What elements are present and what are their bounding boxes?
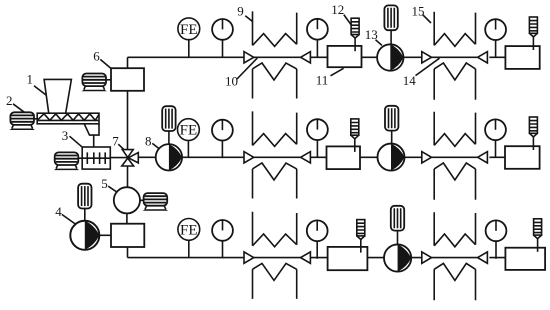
pipe box6 down to valve7: [127, 91, 129, 150]
funnel neck to mill: [93, 135, 95, 147]
mid box row2: [327, 146, 361, 169]
pipe feeder box down to row3: [127, 247, 129, 258]
hopper 1: [44, 79, 71, 113]
pump 4: [70, 221, 99, 250]
pressure gauge row2 left: [212, 120, 233, 158]
pipe pump4 to feeder box: [99, 234, 111, 236]
svg-text:14: 14: [403, 73, 417, 88]
leader line 3: [70, 136, 82, 147]
pressure gauge row3 left: [212, 220, 233, 258]
conveyor shaft line: [37, 119, 99, 121]
valve 10 row1 entry: [244, 52, 254, 63]
svg-text:11: 11: [316, 73, 329, 88]
screw conveyor housing: [37, 113, 99, 124]
leader line 11: [331, 68, 344, 76]
shaft M3 to mill: [78, 157, 82, 159]
temperature sensor 12: [351, 18, 359, 51]
stem motor to pump row2: [391, 131, 393, 144]
row3 HX2 exit triangle: [478, 252, 488, 263]
motor above pump 13: [384, 5, 397, 30]
row2 pipe segments: [182, 156, 505, 158]
screw flight zigzag: [37, 114, 99, 121]
stem motor to pump row3: [397, 231, 399, 245]
heat exchanger row3 HX2: [434, 212, 475, 300]
end box row2: [505, 146, 540, 169]
leader line 4: [62, 214, 76, 224]
svg-text:3: 3: [62, 128, 68, 143]
box 6: [111, 68, 144, 91]
discharge funnel: [84, 124, 99, 135]
leader line 6: [100, 59, 111, 68]
stem motor to pump4: [84, 209, 86, 221]
temperature sensor row3 mid: [357, 220, 365, 253]
leader line 9: [245, 16, 252, 22]
shaft M2 to conveyor: [34, 118, 38, 120]
row1 pipe segments: [128, 56, 506, 58]
pipe valve7 to pump8: [138, 156, 156, 158]
flow meter FE row2: [178, 119, 200, 158]
svg-text:6: 6: [93, 49, 100, 64]
svg-text:10: 10: [225, 73, 238, 88]
temperature sensor row3 right: [534, 219, 542, 252]
motor M2: [10, 112, 35, 130]
row2 entry to HX2: [422, 152, 432, 163]
heat exchanger row2: [253, 111, 297, 198]
leader line 13: [376, 40, 382, 46]
pipe tank5 down to feeder box: [126, 213, 128, 223]
stem motor to pump13: [390, 30, 392, 44]
row2 HX2 exit triangle: [478, 152, 488, 163]
svg-text:1: 1: [27, 72, 34, 87]
svg-text:8: 8: [145, 133, 152, 148]
motor above pump row3 right: [391, 206, 404, 231]
flow meter FE row3: [178, 219, 200, 258]
pipe box6 up to row1: [127, 57, 129, 68]
leader line 10: [237, 58, 257, 79]
row1 exit triangle: [301, 52, 311, 63]
end box row3: [505, 248, 545, 270]
stem motor to pump8: [168, 131, 170, 144]
shaft M6 to box 6: [106, 79, 111, 81]
svg-text:15: 15: [412, 3, 425, 18]
pressure gauge row2 mid: [307, 119, 328, 157]
row3 exit triangle: [301, 252, 311, 263]
heat exchanger row2 HX2: [434, 112, 475, 200]
row2 entry triangle: [244, 152, 254, 163]
leader line 14: [416, 58, 440, 75]
heat exchanger 9 row1: [253, 11, 297, 98]
tank 5 circle: [114, 187, 140, 213]
svg-text:5: 5: [101, 176, 108, 191]
row1 HX2 exit triangle: [478, 52, 488, 63]
temperature sensor row2 mid: [351, 119, 359, 152]
mid box row3: [328, 247, 368, 270]
motor M3: [54, 152, 79, 170]
svg-text:7: 7: [112, 134, 119, 149]
svg-text:12: 12: [331, 2, 344, 17]
pressure gauge row2 right: [485, 119, 506, 157]
motor M5: [143, 193, 168, 211]
leader line 8: [152, 143, 158, 148]
heat exchanger 15 row1: [434, 12, 475, 100]
motor M6: [82, 74, 107, 92]
feeder box row3: [111, 224, 144, 247]
shaft tank5 to motor M5: [140, 199, 144, 201]
pump row3 right: [384, 244, 411, 271]
flow meter FE row1: [178, 18, 200, 57]
temperature sensor row2 right: [529, 117, 537, 150]
leader line 2: [13, 104, 24, 112]
svg-text:2: 2: [6, 93, 13, 108]
row3 pipe segments: [128, 257, 506, 259]
leader line 12: [344, 15, 351, 25]
motor above pump 4: [78, 184, 91, 209]
leader line 7: [118, 144, 124, 149]
svg-text:4: 4: [55, 204, 62, 219]
mill 3: [82, 147, 110, 169]
pressure gauge row3 right: [486, 220, 507, 258]
valve 7 (3-way): [122, 150, 139, 166]
pipe valve7 down to tank5: [127, 166, 129, 187]
pressure gauge row1 right: [485, 19, 506, 57]
end box row1: [505, 46, 539, 69]
pump row2 right: [377, 144, 404, 171]
valve 14 row1 entry to HX2: [422, 52, 432, 63]
heat exchanger row3: [253, 212, 297, 299]
box 11: [328, 46, 362, 67]
svg-text:9: 9: [237, 3, 244, 18]
pump 13: [377, 44, 403, 70]
row2 exit triangle: [301, 152, 311, 163]
pressure gauge row1 mid: [307, 19, 328, 57]
leader line 5: [108, 186, 117, 192]
motor above pump 8: [162, 106, 175, 131]
pump 8: [156, 144, 182, 170]
motor above pump row2 right: [385, 106, 398, 131]
row3 entry triangle: [244, 252, 254, 263]
pressure gauge row1 left: [212, 19, 233, 57]
pipe mill to valve7: [110, 157, 128, 159]
leader line 1: [34, 86, 46, 95]
row3 entry to HX2: [422, 252, 432, 263]
leader line 15: [423, 15, 431, 23]
pressure gauge row3 mid: [307, 220, 328, 258]
temperature sensor row1 right: [529, 17, 537, 50]
